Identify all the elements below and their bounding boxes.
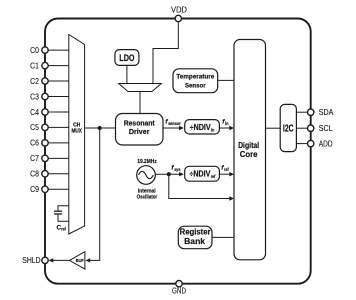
svg-text:C0: C0 bbox=[30, 46, 39, 55]
svg-text:C4: C4 bbox=[30, 108, 39, 117]
svg-text:I2C: I2C bbox=[283, 123, 294, 134]
svg-text:÷NDIV: ÷NDIV bbox=[189, 169, 211, 178]
svg-text:Oscillator: Oscillator bbox=[137, 194, 158, 200]
svg-text:Core: Core bbox=[240, 149, 258, 159]
svg-text:Temperature: Temperature bbox=[176, 73, 214, 80]
svg-text:C3: C3 bbox=[30, 92, 39, 101]
svg-text:Driver: Driver bbox=[129, 127, 150, 136]
svg-text:C9: C9 bbox=[30, 185, 39, 194]
svg-text:C8: C8 bbox=[30, 170, 39, 179]
svg-text:sys: sys bbox=[174, 167, 181, 172]
svg-text:ref: ref bbox=[61, 227, 66, 232]
svg-text:Sensor: Sensor bbox=[185, 82, 206, 89]
svg-text:sensor: sensor bbox=[168, 121, 181, 126]
svg-text:C7: C7 bbox=[30, 154, 39, 163]
svg-text:19.2MHz: 19.2MHz bbox=[137, 159, 157, 165]
svg-text:SCL: SCL bbox=[319, 123, 333, 133]
svg-text:VDD: VDD bbox=[171, 4, 187, 14]
svg-text:LDO: LDO bbox=[119, 53, 134, 63]
svg-text:Register: Register bbox=[180, 228, 211, 237]
svg-text:ref: ref bbox=[224, 167, 229, 172]
svg-text:C6: C6 bbox=[30, 139, 39, 148]
svg-text:in: in bbox=[211, 127, 215, 132]
svg-text:C1: C1 bbox=[30, 61, 39, 70]
svg-text:ref: ref bbox=[211, 174, 216, 179]
svg-text:÷NDIV: ÷NDIV bbox=[190, 123, 212, 132]
svg-text:SDA: SDA bbox=[319, 107, 334, 117]
svg-text:GND: GND bbox=[172, 286, 186, 296]
svg-text:SHLD: SHLD bbox=[22, 256, 40, 265]
svg-text:C5: C5 bbox=[30, 123, 39, 132]
svg-text:Bank: Bank bbox=[184, 237, 206, 246]
svg-text:in: in bbox=[225, 121, 229, 126]
svg-text:ADD: ADD bbox=[319, 139, 333, 149]
svg-text:BUF: BUF bbox=[76, 258, 84, 263]
svg-text:MUX: MUX bbox=[71, 129, 82, 135]
svg-text:C2: C2 bbox=[30, 77, 39, 86]
